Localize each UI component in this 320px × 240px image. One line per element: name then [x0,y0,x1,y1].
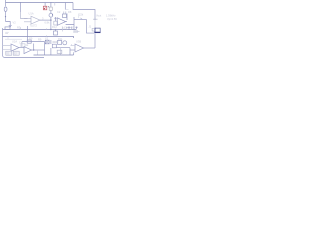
wire V1 bottom to node [5,11,7,21]
R1 wiper dot [52,14,53,15]
resistor R3 box [63,14,67,18]
wire right drop x65 [64,3,66,10]
capacitor C3 [71,27,73,30]
wire U5 output [84,47,96,49]
component X2 box [45,40,49,44]
junction mid [50,29,51,30]
wire branch x20 lower [21,12,28,19]
crystal pins [64,12,66,15]
svg-text:R11: R11 [58,37,63,41]
resistor R6 box [27,40,31,43]
svg-text:R12: R12 [52,25,57,29]
wire x27 vertical [27,26,29,41]
op-amp U4 [24,47,32,54]
junction top rail [20,2,21,3]
connector J1 (blue box) [95,28,100,32]
label mark [5,32,9,33]
wire x51 bottom [50,40,52,55]
svg-text:Vout: Vout [96,14,101,18]
svg-text:C4: C4 [64,26,68,30]
resistor R12 box on rail [57,50,62,53]
svg-text:S2: S2 [14,52,18,56]
wire y19.5 link [74,19,87,21]
wire x62 vertical [62,27,64,32]
wire x37 drop [37,50,39,55]
component X4 (gray box) [49,7,52,10]
connector J1 side cell [92,28,95,31]
svg-text:6.8k: 6.8k [45,21,51,25]
wire left drop [5,0,7,6]
svg-text:TL072: TL072 [30,24,38,28]
wire U1 inputs [24,18,31,22]
switch S1 boxes [6,51,19,55]
svg-text:22k: 22k [79,13,84,17]
svg-text:R9: R9 [38,38,42,42]
rail VCC mid [3,29,77,31]
junction U4 [33,49,34,50]
wire mid segment [74,31,80,33]
wire faint tick x66 [65,9,68,11]
wire x33 feedback [33,44,35,51]
switch tick [81,18,83,20]
op-amp U5 [75,44,84,52]
svg-text:1.59kHz: 1.59kHz [106,14,116,18]
component row box [74,31,78,33]
voltage source V1 [4,7,7,11]
wire U5 input B [70,49,75,51]
labels [6,10,117,56]
junction rail a [27,29,28,30]
svg-text:R9: R9 [29,37,33,41]
svg-text:R3: R3 [17,26,21,30]
capacitor C2 [75,27,77,30]
wire gray component pin [50,3,52,8]
diode D1 vertical [54,17,56,21]
svg-text:U1A: U1A [29,12,34,16]
wire mid bottom [56,48,70,55]
node corner [6,22,11,26]
lamp X3 [63,41,67,45]
wire faint y39 [5,38,22,40]
wire U3 output [19,47,24,49]
wire U5 input tick [71,44,73,45]
sub-circuit border [3,28,45,58]
capacitor C7 [66,27,68,30]
wire U2 output net [66,14,74,30]
wire right riser [73,52,75,55]
svg-text:U2A: U2A [12,40,17,44]
wire x86 drop [87,20,95,34]
rail VEE mid [3,37,74,39]
wire far corner [73,3,95,21]
wire top rail [6,2,74,4]
connector J1 left edge [94,28,96,32]
capacitor C1 [68,27,70,30]
extra faint wires [5,10,79,40]
wire U3 inputs [3,46,12,50]
wire x60 drop [60,48,62,55]
wire faint tick rail2 [46,35,48,37]
wire red component pin [44,3,46,7]
resistor R8 box [58,41,62,45]
svg-text:Vp=2.5V: Vp=2.5V [107,17,117,21]
wire branch x20 [20,3,22,13]
X4 dot [48,6,49,7]
junction dot [5,16,6,17]
svg-text:X2: X2 [45,37,49,41]
wire output riser [94,33,96,48]
wire faint tick rail1 [46,28,48,30]
wire faint x78 [78,14,80,19]
wire stub x54.8 [54,3,56,6]
wire x51 vertical [50,10,52,29]
resistor R5 box [21,44,25,47]
op-amp U3 [11,44,19,51]
resistor R2 box [54,21,58,25]
potentiometer R1 [49,13,53,17]
svg-text:C2: C2 [57,10,61,14]
resistor R7 box [52,44,56,48]
wire U4 output [32,49,45,51]
ground [9,25,12,27]
resistor R4 box [54,31,58,35]
wire x44 vertical [44,42,46,56]
component X1 (red) [43,6,47,10]
bottom rail [34,54,74,56]
wire tick x20 [19,27,21,29]
junction top rail 2 [50,2,51,3]
svg-text:C6: C6 [19,41,23,45]
svg-text:U3B: U3B [76,40,81,44]
junction [50,19,51,20]
wire U5 input A [71,45,76,47]
op-amp U2 [57,18,65,26]
junction rail c [27,36,28,37]
svg-text:C5: C5 [71,26,75,30]
connector arrow [93,18,98,21]
svg-text:S1: S1 [6,52,10,56]
fuse F1 box on rail [5,27,10,30]
wire x95 lower faint [94,20,96,28]
X2 cross [45,40,49,44]
svg-text:R8: R8 [68,10,72,14]
wire faint x8 stub [7,37,9,40]
wire U1 output [40,19,51,21]
wire x22 vertical [21,42,23,48]
svg-text:V2: V2 [13,21,17,25]
wire x55 vertical [55,30,57,32]
op-amp U1 [31,16,40,24]
junction rail b [55,29,56,30]
feedback line top [22,41,45,43]
connector J1 bottom bar [94,31,100,33]
